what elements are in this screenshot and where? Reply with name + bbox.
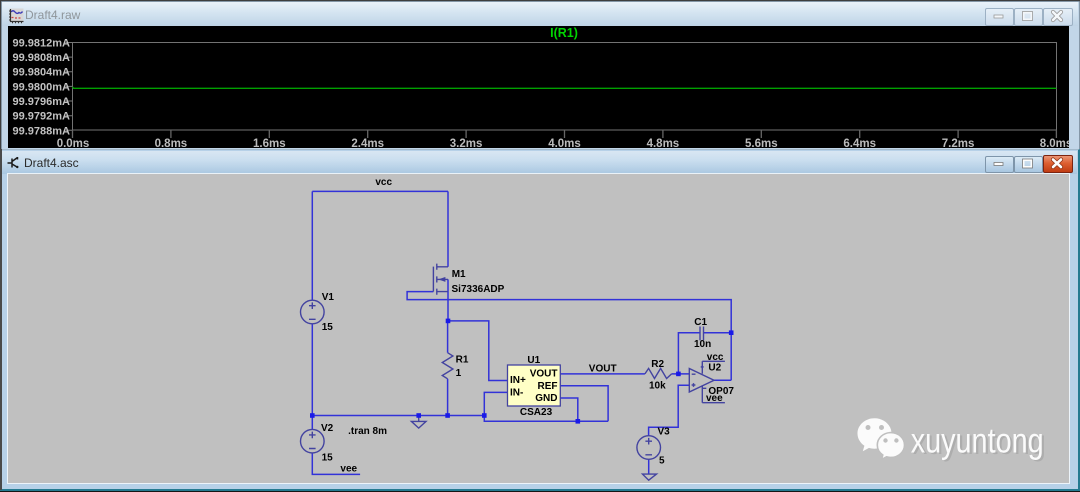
svg-text:M1: M1 xyxy=(452,269,466,280)
svg-text:7.2ms: 7.2ms xyxy=(942,138,975,148)
svg-text:VOUT: VOUT xyxy=(589,364,617,375)
wire R2 to junction and op-amp minus input xyxy=(672,373,690,375)
svg-text:V1: V1 xyxy=(322,292,335,303)
top window buttons xyxy=(985,8,1014,26)
wire U1 IN- to rail xyxy=(484,392,507,415)
wire M1 gate run to C1 right node xyxy=(407,292,731,333)
svg-text:15: 15 xyxy=(322,322,334,333)
junction at R1 bottom on rail xyxy=(445,413,450,418)
op-amp vcc label stub xyxy=(702,360,725,362)
svg-text:99.9796mA: 99.9796mA xyxy=(13,96,71,108)
transistor M1 (NMOS) xyxy=(432,267,434,292)
wire V1 bottom to rail xyxy=(311,324,313,416)
svg-text:4.8ms: 4.8ms xyxy=(647,138,680,148)
svg-text:6.4ms: 6.4ms xyxy=(843,138,876,148)
resistor R2 xyxy=(645,368,672,378)
svg-text:CSA23: CSA23 xyxy=(520,407,553,418)
voltage source V2 xyxy=(301,429,325,453)
svg-text:15: 15 xyxy=(322,453,334,464)
svg-text:R1: R1 xyxy=(456,355,469,366)
op-amp U2 xyxy=(689,369,714,393)
wire V1 top drop xyxy=(311,191,313,300)
y ticks + labels xyxy=(66,43,73,131)
wire ground rail xyxy=(312,415,484,417)
svg-text:3.2ms: 3.2ms xyxy=(450,138,483,148)
wire vcc top rail xyxy=(312,190,448,192)
svg-text:4.0ms: 4.0ms xyxy=(548,138,581,148)
wire op-amp output to feedback node xyxy=(714,333,731,381)
svg-text:VOUT: VOUT xyxy=(530,369,558,380)
svg-text:10n: 10n xyxy=(694,339,711,350)
svg-text:10k: 10k xyxy=(649,380,666,391)
svg-text:5.6ms: 5.6ms xyxy=(745,138,778,148)
svg-text:99.9812mA: 99.9812mA xyxy=(13,38,71,50)
x ticks + labels xyxy=(73,130,1057,138)
svg-text:vee: vee xyxy=(340,464,357,475)
capacitor C1 xyxy=(700,327,704,341)
component U1 body (CSA23) xyxy=(508,365,561,406)
svg-text:Si7336ADP: Si7336ADP xyxy=(452,284,505,295)
svg-text:99.9804mA: 99.9804mA xyxy=(13,67,71,79)
bottom dark strip xyxy=(0,491,1080,492)
svg-text:1: 1 xyxy=(456,368,462,379)
svg-text:C1: C1 xyxy=(694,317,707,328)
svg-text:V3: V3 xyxy=(658,427,671,438)
voltage source V1 xyxy=(301,300,325,324)
top window icon (waveform) xyxy=(8,8,24,24)
wire VOUT to R2 xyxy=(560,373,645,375)
junction at M1 source / R1 top node xyxy=(446,319,451,324)
graph box xyxy=(73,43,1057,131)
wire junction up to C1 left xyxy=(678,333,700,374)
ground under V3 xyxy=(643,474,657,480)
svg-text:GND: GND xyxy=(535,393,557,404)
ground near R1 xyxy=(411,416,426,429)
svg-text:IN+: IN+ xyxy=(510,375,526,386)
top client: black plot xyxy=(8,26,1069,148)
wire op-amp plus input from V3 xyxy=(649,385,690,435)
wire M1 drain drop xyxy=(447,191,449,266)
wire C1 right plate to node xyxy=(704,332,732,334)
svg-text:REF: REF xyxy=(538,381,558,392)
svg-text:U1: U1 xyxy=(527,355,540,366)
junction at U1 GND return xyxy=(576,419,581,424)
svg-text:0.8ms: 0.8ms xyxy=(155,138,188,148)
wire V3 bottom to ground xyxy=(648,459,650,474)
svg-text:vcc: vcc xyxy=(375,177,392,188)
resistor R1 xyxy=(442,353,453,379)
svg-text:I(R1): I(R1) xyxy=(550,26,578,40)
svg-text:2.4ms: 2.4ms xyxy=(351,138,384,148)
junction at R2 / op-amp inverting input node xyxy=(676,372,681,377)
wire U1 GND pin xyxy=(560,398,578,421)
wire R1 top xyxy=(447,321,449,353)
svg-text:xuyuntong: xuyuntong xyxy=(911,421,1044,460)
svg-text:1.6ms: 1.6ms xyxy=(253,138,286,148)
svg-text:99.9788mA: 99.9788mA xyxy=(13,125,71,137)
svg-text:U2: U2 xyxy=(708,362,721,373)
wire R1 bottom xyxy=(447,379,449,416)
bottom client: gray schematic xyxy=(8,174,1069,483)
top title bar gradient xyxy=(2,2,1078,26)
svg-text:OP07: OP07 xyxy=(708,386,734,397)
junction at C1 right / M1 gate feedback node xyxy=(729,330,734,335)
junction at ground symbol on rail xyxy=(416,413,421,418)
svg-text:V2: V2 xyxy=(321,423,334,434)
svg-text:0.0ms: 0.0ms xyxy=(57,138,90,148)
voltage source V3 xyxy=(637,436,661,460)
svg-text:5: 5 xyxy=(659,456,665,467)
wire M1 source to junction xyxy=(447,279,449,321)
bottom window buttons xyxy=(985,156,1014,173)
schematic text labels xyxy=(321,177,734,475)
svg-text:99.9792mA: 99.9792mA xyxy=(13,111,71,123)
wire node to U1 IN+ xyxy=(448,321,508,381)
watermark wechat logo xyxy=(857,418,904,459)
junction at IN- tap on rail xyxy=(482,413,487,418)
op-amp vee label stub xyxy=(702,402,725,404)
wire rail jog to GND/REF return xyxy=(484,416,608,422)
wire U1 REF return xyxy=(560,386,608,422)
bottom window icon (component glyph) xyxy=(7,155,20,169)
green trace xyxy=(73,87,1057,88)
wire V2 top xyxy=(311,416,313,430)
left dark edge over bottom window border xyxy=(0,149,2,490)
svg-text:99.9808mA: 99.9808mA xyxy=(13,52,71,64)
svg-text:vcc: vcc xyxy=(707,352,724,363)
svg-text:.tran 8m: .tran 8m xyxy=(348,426,387,437)
svg-text:8.0ms: 8.0ms xyxy=(1040,138,1069,148)
svg-text:IN-: IN- xyxy=(510,387,523,398)
wire V2 bottom to vee stub xyxy=(312,453,360,474)
svg-text:99.9800mA: 99.9800mA xyxy=(13,81,71,93)
junction at V1-V2 node on ground rail xyxy=(310,413,315,418)
svg-text:R2: R2 xyxy=(651,359,664,370)
